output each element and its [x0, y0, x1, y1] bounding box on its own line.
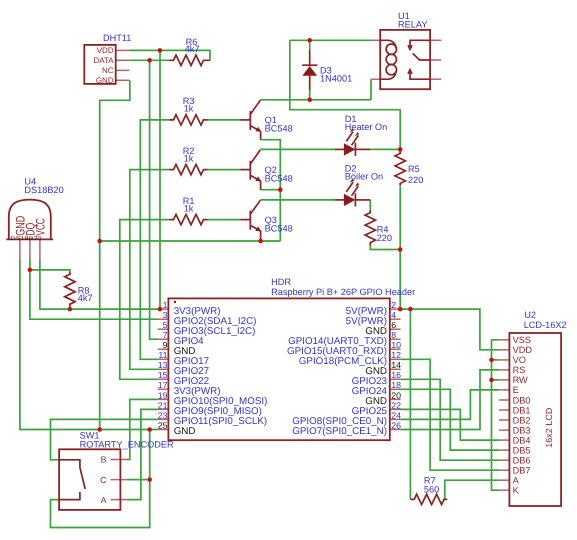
svg-text:E: E	[513, 385, 519, 395]
svg-text:BC548: BC548	[265, 173, 293, 183]
svg-text:VCC: VCC	[33, 218, 47, 236]
svg-text:DB6: DB6	[513, 456, 531, 466]
svg-text:DHT11: DHT11	[103, 33, 131, 43]
svg-text:DB5: DB5	[513, 445, 531, 455]
svg-text:HDR: HDR	[271, 277, 291, 287]
svg-text:24: 24	[391, 410, 401, 420]
svg-text:16: 16	[391, 370, 401, 380]
svg-text:Heater On: Heater On	[345, 122, 387, 132]
svg-text:GND: GND	[174, 426, 196, 437]
svg-text:RS: RS	[513, 365, 526, 375]
svg-text:25: 25	[158, 420, 168, 430]
svg-text:Boiler On: Boiler On	[345, 172, 383, 182]
svg-text:R5: R5	[408, 164, 420, 174]
svg-text:220: 220	[408, 175, 423, 185]
svg-text:VDD: VDD	[513, 345, 533, 355]
svg-text:VSS: VSS	[513, 335, 531, 345]
svg-text:13: 13	[158, 360, 168, 370]
svg-text:DB1: DB1	[513, 405, 531, 415]
svg-text:8: 8	[391, 330, 396, 340]
svg-text:1k: 1k	[184, 104, 194, 114]
svg-text:1k: 1k	[184, 203, 194, 213]
svg-text:A: A	[513, 476, 520, 486]
svg-text:9: 9	[163, 340, 168, 350]
svg-text:4: 4	[391, 310, 396, 320]
svg-text:DATA: DATA	[93, 56, 114, 65]
svg-text:5: 5	[163, 320, 168, 330]
svg-text:6: 6	[391, 320, 396, 330]
svg-text:Raspberry Pi B+ 26P GPIO Heade: Raspberry Pi B+ 26P GPIO Header	[271, 287, 415, 297]
svg-text:16x2 LCD: 16x2 LCD	[544, 407, 554, 448]
svg-text:DB0: DB0	[513, 395, 531, 405]
svg-text:C: C	[100, 475, 106, 485]
svg-text:14: 14	[391, 360, 401, 370]
svg-text:RELAY: RELAY	[398, 19, 427, 29]
svg-text:U2: U2	[524, 310, 536, 320]
svg-text:12: 12	[391, 350, 401, 360]
svg-text:B: B	[101, 455, 107, 465]
svg-text:VO: VO	[513, 355, 526, 365]
svg-text:19: 19	[158, 390, 168, 400]
svg-text:RW: RW	[513, 375, 528, 385]
svg-text:22: 22	[391, 400, 401, 410]
svg-text:DS18B20: DS18B20	[24, 185, 63, 195]
svg-text:1: 1	[163, 300, 168, 310]
svg-text:1N4001: 1N4001	[320, 74, 352, 84]
svg-text:21: 21	[158, 400, 168, 410]
svg-text:NC: NC	[102, 66, 114, 75]
svg-text:220: 220	[377, 233, 392, 243]
svg-text:DS18B20: DS18B20	[11, 236, 42, 242]
svg-text:4k7: 4k7	[185, 44, 200, 54]
svg-text:DB2: DB2	[513, 415, 531, 425]
svg-text:20: 20	[391, 390, 401, 400]
svg-text:GPIO7(SPI0_CE1_N): GPIO7(SPI0_CE1_N)	[292, 426, 387, 437]
svg-text:23: 23	[158, 410, 168, 420]
svg-text:BC548: BC548	[265, 223, 293, 233]
svg-text:3: 3	[163, 310, 168, 320]
svg-text:DB7: DB7	[513, 466, 531, 476]
svg-text:LCD-16X2: LCD-16X2	[524, 320, 567, 330]
svg-text:A: A	[101, 495, 107, 505]
svg-text:7: 7	[163, 330, 168, 340]
svg-text:4k7: 4k7	[78, 293, 93, 303]
svg-text:K: K	[513, 486, 520, 496]
svg-text:DB4: DB4	[513, 435, 531, 445]
svg-text:ROTARTY_ENCODER: ROTARTY_ENCODER	[80, 440, 174, 450]
svg-text:11: 11	[158, 350, 167, 360]
svg-text:15: 15	[158, 370, 168, 380]
svg-text:560: 560	[424, 485, 439, 495]
svg-text:1k: 1k	[184, 153, 194, 163]
svg-text:2: 2	[391, 300, 396, 310]
svg-text:VDD: VDD	[97, 46, 114, 55]
svg-text:10: 10	[391, 340, 401, 350]
svg-text:18: 18	[391, 380, 401, 390]
svg-text:17: 17	[158, 380, 168, 390]
svg-text:26: 26	[391, 420, 401, 430]
svg-text:GND: GND	[96, 76, 114, 85]
svg-text:DB3: DB3	[513, 425, 531, 435]
svg-text:BC548: BC548	[265, 124, 293, 134]
